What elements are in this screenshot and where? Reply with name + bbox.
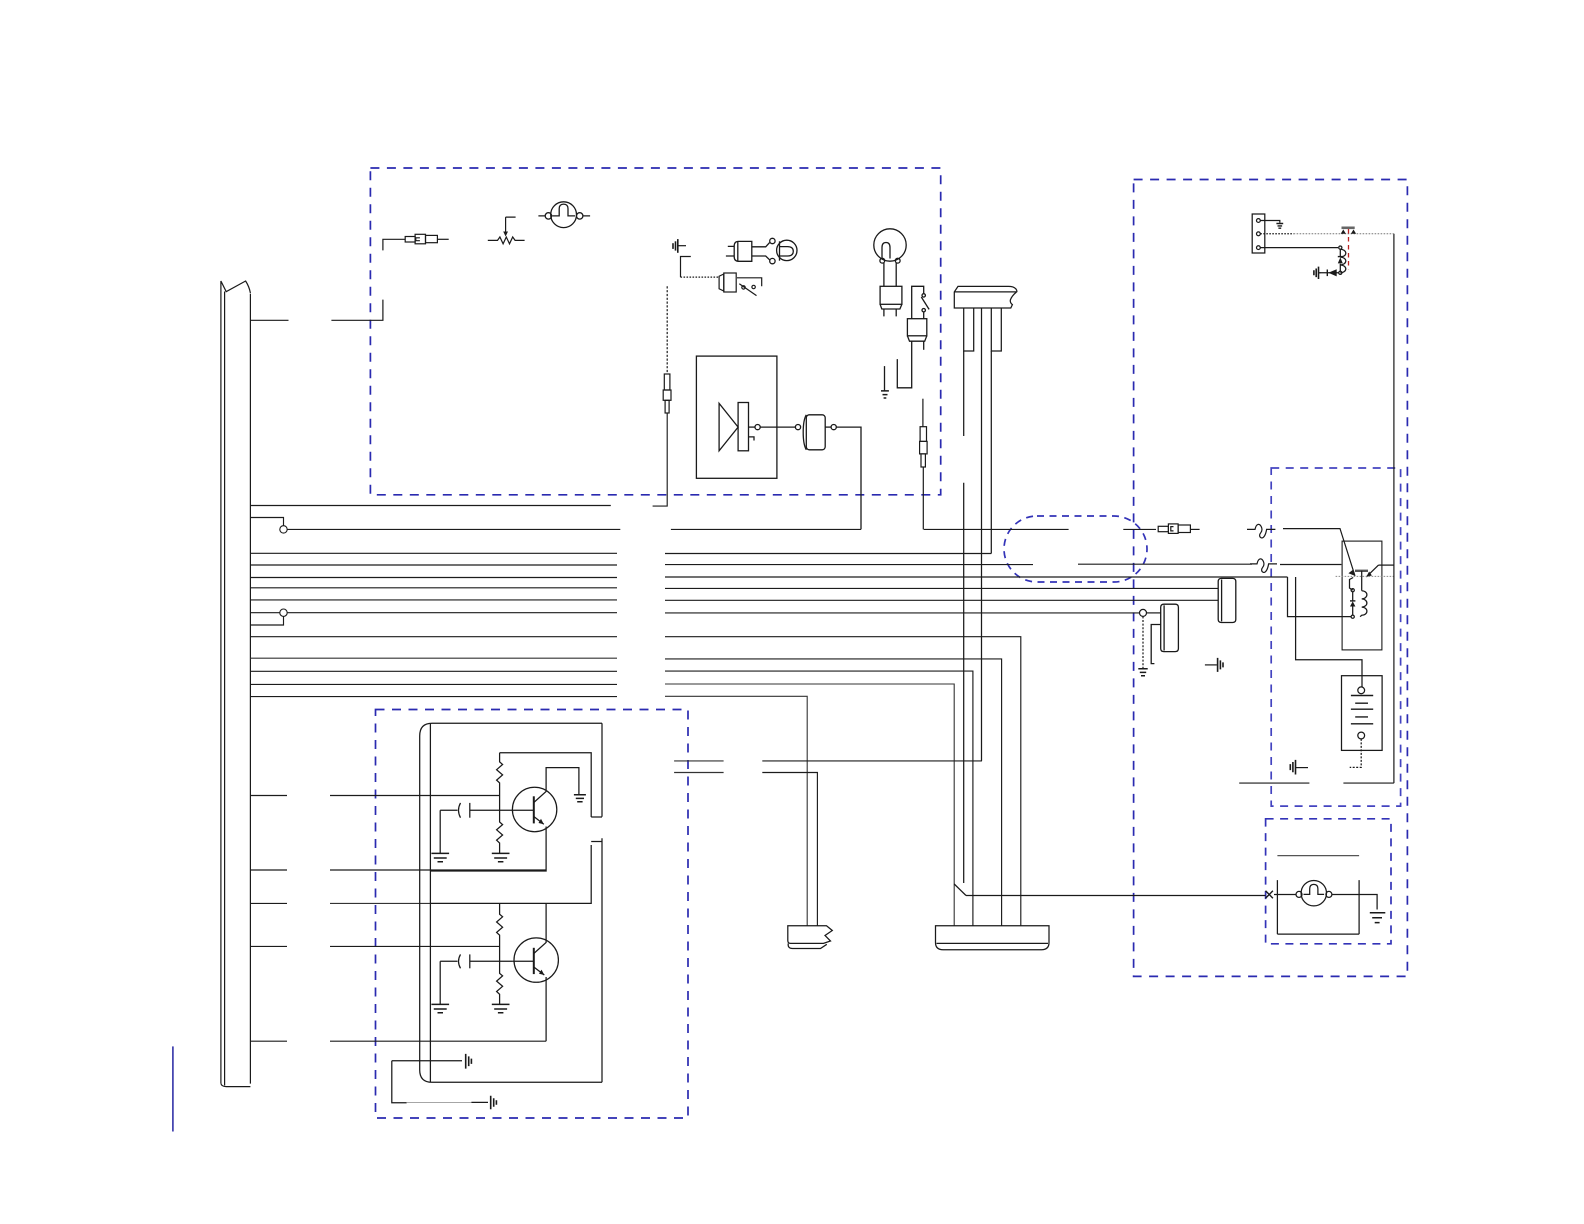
wire bus7 right: [665, 599, 1218, 601]
relay box: [1342, 541, 1382, 650]
wire bus6: [250, 587, 617, 589]
big cap (bottom): [936, 926, 1050, 950]
wire bus8 stub below: [250, 616, 283, 625]
transistor Q2: [514, 938, 558, 982]
wire: diagonal jog to tail lamp feed: [954, 884, 966, 896]
connector hood (top cap): [954, 286, 1017, 308]
capacitor C2: [459, 954, 461, 968]
wire: L to plug P1: [681, 257, 691, 278]
pin2 dotted wire: [1260, 233, 1293, 235]
resistor (passing lamp) with arrow: [488, 237, 525, 244]
connector cap comp1: [1218, 578, 1236, 622]
bulb B3: [1301, 881, 1326, 906]
node on bus8 + ground drop: [1138, 609, 1160, 675]
coil K1: [1339, 246, 1342, 249]
wire bus11 right, drop to column cap: [665, 671, 973, 926]
L-wire down: [392, 1061, 407, 1103]
C1 ground leg: [439, 810, 441, 853]
series diode to ground: [1319, 272, 1338, 274]
dashed box: flasher unit (bottom left): [376, 710, 689, 1119]
emitter path to node: [1350, 578, 1354, 591]
wire bus1: [250, 505, 610, 507]
pin1 to ground: [1260, 221, 1280, 223]
wire bus4 right: [665, 564, 1033, 566]
ground (left-pointing) near horn: [673, 239, 686, 253]
wire bus15 emitter Q1 return: [250, 869, 287, 871]
switch S2 (engine stop): [912, 286, 924, 318]
ground stem + bars: [884, 366, 886, 391]
wire to ground G1: [392, 1060, 462, 1062]
inline connector on bus2: [1158, 524, 1199, 534]
wire bus16 to flasher box2 top: [250, 902, 287, 904]
bulb neck: [884, 263, 896, 286]
battery feed: [1296, 577, 1362, 687]
wire bus4: [250, 564, 617, 566]
pin3 wire to coil: [1260, 247, 1338, 249]
transistor circuit 1: [430, 753, 591, 871]
crossing mark: [1266, 891, 1273, 898]
ground (left-pointing) near battery: [1290, 760, 1308, 775]
wire busB left stub: [674, 772, 724, 774]
wire bus9: [250, 636, 617, 638]
plug P2: [907, 319, 926, 336]
plug P1 (brake switch): [719, 274, 724, 291]
resistor R2: [497, 903, 503, 1004]
condenser (comp3): [803, 415, 806, 450]
wire bus12: [250, 683, 617, 685]
wire bus4 to relay box: [1280, 564, 1341, 566]
wire bus1 right piece to fuse: [653, 413, 668, 506]
small cap lip: [788, 943, 827, 948]
ignition coil + plug cap (top middle): [726, 238, 797, 263]
dashed box: right assembly (frame): [1134, 180, 1408, 977]
wire: pin line to bus3: [990, 351, 992, 554]
diode box (rectifier): [696, 356, 861, 529]
wire bus18 emitter Q2 return: [250, 1040, 287, 1042]
wire bus12 right, drop to column cap: [665, 684, 954, 926]
transistor Q1: [512, 787, 556, 831]
wire bus2 mid: [671, 528, 861, 530]
right transistor stub to long wire: [1379, 564, 1395, 566]
container right edge (with break): [601, 723, 603, 1082]
ground (right-pointing) mid right: [1205, 658, 1223, 672]
wire bus10: [250, 657, 617, 659]
wire + switch S1: [737, 278, 762, 287]
fuse F1: [663, 286, 671, 413]
moving contact dotted line: [1294, 233, 1394, 235]
pin right (U): [991, 309, 1001, 352]
relay diode with nodes: [1351, 589, 1354, 592]
horn (bulb symbol): [538, 202, 590, 228]
wire to ground G2: [471, 1101, 488, 1103]
node circle bus2: [280, 526, 287, 533]
break stubs: [591, 817, 602, 842]
wire bus10 right, drop to column cap: [665, 659, 1002, 926]
dashed box: inner battery/relay group: [1271, 468, 1400, 806]
node circle bus8: [280, 609, 287, 616]
red actuator dashes: [1348, 229, 1350, 269]
wire bus17 to flasher resistor R2: [250, 945, 287, 947]
wire bus2 from fuse2: [924, 528, 1069, 530]
wire bus2 stub: [250, 518, 283, 526]
3-pin connector: [1252, 214, 1265, 253]
ground (left-pointing): [1314, 267, 1319, 279]
wire: tail lamp feed: [966, 895, 1266, 897]
wire: long pin line to busA: [981, 309, 983, 761]
wire at y783: [1239, 782, 1394, 784]
wire bus2 to relay: [1283, 529, 1355, 576]
C2 ground leg: [439, 961, 441, 1004]
wire busB right, drop to small cap: [762, 773, 817, 926]
contact bar: [1342, 227, 1355, 230]
small cap (bottom left): [788, 926, 833, 944]
dashed box: handlebar switches (top): [370, 168, 940, 495]
wire bus14 to flasher resistor R1: [250, 795, 287, 797]
big cap inner line: [937, 942, 1049, 944]
relay coil: [1360, 591, 1367, 617]
wire busA left stub: [674, 760, 724, 762]
common dotted line: [1336, 575, 1395, 577]
wires: [1274, 895, 1377, 910]
dashed box: tail lamp unit: [1266, 819, 1391, 944]
wire: headlamp feed into top box: [331, 300, 383, 321]
wire bus2: [287, 528, 620, 530]
wire bus13: [250, 696, 617, 698]
wire bus6 right: [665, 587, 1218, 589]
wire bus11: [250, 670, 617, 672]
wire bus4 inside stadium: [1078, 563, 1252, 565]
spark plug column (right of top box): [874, 229, 929, 398]
wire: stub at top of connector: [250, 319, 288, 321]
ground R1: [492, 853, 510, 861]
comp2 lower hook: [1151, 625, 1161, 664]
dashed stadium: harness pass-through: [1004, 516, 1147, 582]
fold mark (solid blue line bottom-left): [172, 1046, 174, 1131]
wire bus3 right: [665, 553, 991, 555]
resistor R1: [497, 753, 503, 854]
bulb B2 (headlamp): [874, 229, 906, 261]
contact arrows: [1341, 230, 1346, 234]
wire bus8 right: [665, 612, 1139, 614]
wire bus9 right, drop to column cap: [665, 637, 1021, 926]
connector: instrument panel bar (left): [221, 281, 251, 1083]
wire bus8 left of node: [250, 612, 279, 614]
wire busA right: [762, 760, 982, 762]
wire bus5 right: [665, 576, 1288, 578]
fuse F2: [920, 399, 928, 530]
transistor pair: left arrow head: [1348, 570, 1355, 576]
wire bus7: [250, 599, 617, 601]
ground under lamp: [1370, 913, 1386, 923]
right transistor diagonal: [1366, 565, 1378, 577]
lamp housing U: [1277, 880, 1359, 934]
wire: left pin tail upper: [963, 351, 965, 436]
base stem to coil: [1361, 571, 1363, 591]
base bar: [1355, 570, 1368, 572]
wire bus3: [250, 552, 617, 554]
connector cap comp2: [1151, 604, 1178, 663]
bracket line: [1277, 855, 1359, 857]
plug legs: [897, 341, 911, 388]
sub-box Q1 top: [500, 753, 592, 817]
transistor circuit 2: [430, 845, 591, 1041]
battery: [1342, 676, 1383, 768]
capacitor C1: [459, 803, 461, 818]
flasher internal grounds: [392, 1054, 497, 1109]
long wire from relay contact down: [1393, 234, 1395, 783]
wire bus13 right, drop to small cap: [665, 696, 807, 926]
sub-box Q2 top: [430, 845, 591, 903]
wire bus8: [287, 612, 617, 614]
bullet connector (dimmer feed): [383, 239, 405, 250]
diode on coil: [1339, 249, 1341, 271]
squiggle on bus2: [1247, 524, 1275, 538]
wire bus2 to inline connector: [1123, 528, 1156, 530]
squiggle on bus4: [1250, 559, 1277, 573]
ground R2: [492, 1004, 510, 1012]
wire bus5: [250, 577, 617, 579]
relay bottom feed: [1288, 577, 1352, 617]
wire: left pin tail lower: [963, 483, 965, 883]
pin left (U): [964, 309, 974, 352]
flasher container outline: [420, 723, 602, 1082]
